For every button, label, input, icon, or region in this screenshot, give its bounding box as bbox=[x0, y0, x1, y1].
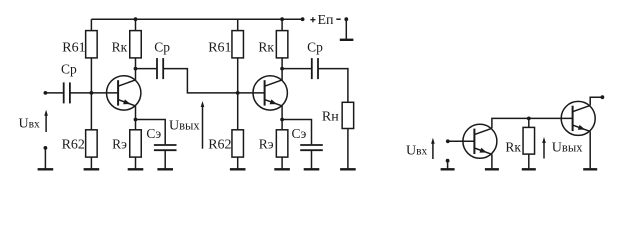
wire emitter Q3 to ground bbox=[491, 154, 493, 168]
transistor Q4 bbox=[561, 101, 595, 135]
wire collector Q2 up bbox=[281, 58, 283, 80]
wire input to base Q3 bbox=[448, 140, 475, 142]
resistor Rк (right) bbox=[523, 127, 535, 154]
wire stage1 divider middle bbox=[90, 58, 92, 130]
wire collector node to Cр2 bbox=[136, 68, 158, 70]
node Rк rail junction bbox=[134, 17, 138, 21]
svg-text:R62: R62 bbox=[62, 138, 85, 153]
ground input (right) bbox=[441, 168, 455, 170]
capacitor Cр (output) bbox=[312, 58, 318, 79]
node +Eп terminal dot bbox=[344, 17, 348, 21]
wire Rк2 to rail bbox=[281, 19, 283, 30]
svg-text:Rк: Rк bbox=[258, 40, 274, 55]
ground under Rэ stage1 bbox=[128, 168, 144, 170]
transistor Q1 bbox=[107, 76, 141, 110]
wire collector Q1 up bbox=[135, 58, 137, 80]
wire Cр to base Q1 bbox=[70, 92, 118, 94]
svg-text:Uвх: Uвх bbox=[19, 116, 41, 131]
wire top power rail bbox=[91, 18, 302, 20]
arrow Uвых (stage 1) bbox=[201, 101, 205, 149]
wire Rк to rail bbox=[135, 19, 137, 30]
resistor Rк (stage 2) bbox=[276, 31, 288, 58]
resistor R61 (stage 1) bbox=[86, 31, 98, 58]
ground input (left) bbox=[38, 168, 54, 170]
wire Cэ to ground bbox=[164, 150, 166, 168]
arrow Uвх (left) bbox=[44, 110, 48, 132]
ground under Rн bbox=[340, 168, 356, 170]
output terminal dot bbox=[601, 95, 605, 99]
wire emitter Q2 down bbox=[281, 106, 283, 130]
wire stage2 divider middle bbox=[237, 58, 239, 130]
wire stage2 divider vertical top bbox=[237, 19, 239, 30]
ground under Rк (right) bbox=[522, 168, 536, 170]
capacitor Cр (input, stage 1) bbox=[64, 82, 70, 103]
wire input bottom terminal to ground (right) bbox=[447, 162, 449, 168]
wire stage1 divider bottom bbox=[90, 157, 92, 168]
node Rк2 rail junction bbox=[280, 17, 284, 21]
svg-text:Uвых: Uвых bbox=[552, 141, 583, 156]
node Rк junction (right) bbox=[527, 117, 531, 121]
svg-text:Rэ: Rэ bbox=[112, 137, 127, 152]
svg-text:Uвх: Uвх bbox=[406, 144, 428, 159]
label minus sign of power bbox=[336, 18, 340, 20]
svg-text:Rк: Rк bbox=[505, 139, 521, 154]
node emitter Q2 bbox=[280, 118, 284, 122]
input terminal dot (right) bbox=[446, 139, 450, 143]
svg-text:Cэ: Cэ bbox=[146, 126, 161, 141]
svg-text:Rн: Rн bbox=[322, 109, 339, 124]
resistor Rк (stage 1) bbox=[130, 31, 142, 58]
ground under Rб2 stage2 bbox=[230, 168, 246, 170]
node collector Q2 bbox=[280, 67, 284, 71]
ground emitter Q4 bbox=[583, 168, 597, 170]
svg-text:R61: R61 bbox=[208, 41, 231, 56]
wire Rк down bbox=[528, 118, 530, 127]
svg-text:Cэ: Cэ bbox=[292, 126, 307, 141]
wire Rэ2 to ground bbox=[281, 157, 283, 168]
wire emitter node to Cэ bbox=[136, 120, 166, 145]
input terminal top dot bbox=[44, 91, 48, 95]
arrow Uвых (right) bbox=[542, 137, 546, 159]
node emitter Q1 bbox=[134, 118, 138, 122]
input terminal bottom dot bbox=[44, 146, 48, 150]
wire emitter node 2 to Cэ2 bbox=[282, 120, 311, 145]
wire collector Q4 to output terminal bbox=[590, 97, 601, 105]
ground power supply bbox=[340, 39, 354, 41]
svg-text:Cр: Cр bbox=[154, 40, 170, 55]
node collector Q1 bbox=[134, 67, 138, 71]
svg-text:R62: R62 bbox=[208, 138, 231, 153]
wire Rк node to base Q4 bbox=[529, 117, 573, 119]
ground under Rб2 stage1 bbox=[84, 168, 100, 170]
label plus sign of power bbox=[310, 17, 315, 22]
input terminal bottom dot (right) bbox=[446, 159, 450, 163]
wire base node to Q2 bbox=[238, 92, 265, 94]
capacitor Cр (coupling, stage 1 to 2) bbox=[157, 58, 163, 79]
resistor Rэ (stage 2) bbox=[276, 130, 288, 157]
resistor R62 (stage 2) bbox=[232, 130, 244, 157]
wire Cр2 to corner and down to base Q2 bbox=[163, 69, 238, 93]
wire collector Q3 up and right bbox=[492, 118, 529, 128]
capacitor Cэ (stage 2) bbox=[300, 145, 323, 150]
svg-text:R61: R61 bbox=[62, 41, 85, 56]
wire stage1 divider top bbox=[90, 19, 92, 30]
svg-text:Rэ: Rэ bbox=[259, 137, 274, 152]
node base Q2 / divider2 junction bbox=[236, 91, 240, 95]
wire Eп terminal to power ground bbox=[345, 19, 347, 39]
ground under Cэ stage2 bbox=[304, 168, 320, 170]
wire emitter Q4 to ground bbox=[589, 131, 591, 168]
wire collector node 2 to Cр3 bbox=[282, 68, 312, 70]
wire Rк right to ground bbox=[528, 154, 530, 168]
resistor Rн bbox=[342, 102, 354, 128]
wire input to Cр bbox=[45, 92, 63, 94]
transistor Q3 bbox=[463, 124, 497, 158]
arrow Uвх (right) bbox=[431, 138, 435, 159]
resistor R61 (stage 2) bbox=[232, 31, 244, 58]
wire Rэ to ground bbox=[135, 157, 137, 168]
svg-text:Uвых: Uвых bbox=[169, 118, 200, 133]
transistor Q2 bbox=[253, 76, 287, 110]
wire Cэ2 to ground bbox=[311, 150, 313, 168]
ground emitter Q3 bbox=[485, 168, 499, 170]
ground under Cэ stage1 bbox=[157, 168, 173, 170]
wire Rн to ground bbox=[347, 129, 349, 169]
wire input bottom terminal to ground bbox=[44, 149, 46, 168]
wire Cр3 to Rн bbox=[318, 69, 348, 103]
svg-text:Cр: Cр bbox=[307, 40, 323, 55]
wire stage2 divider bottom bbox=[237, 157, 239, 168]
node base Q1 / divider junction bbox=[90, 91, 94, 95]
wire emitter Q1 down bbox=[135, 106, 137, 130]
svg-text:Rк: Rк bbox=[112, 40, 128, 55]
svg-text:Eп: Eп bbox=[318, 13, 335, 28]
resistor Rэ (stage 1) bbox=[130, 130, 142, 157]
node rail end dot bbox=[301, 17, 305, 21]
capacitor Cэ (stage 1) bbox=[154, 145, 177, 150]
svg-text:Cр: Cр bbox=[61, 61, 77, 76]
resistor R62 (stage 1) bbox=[86, 130, 98, 157]
ground under Rэ stage2 bbox=[274, 168, 290, 170]
